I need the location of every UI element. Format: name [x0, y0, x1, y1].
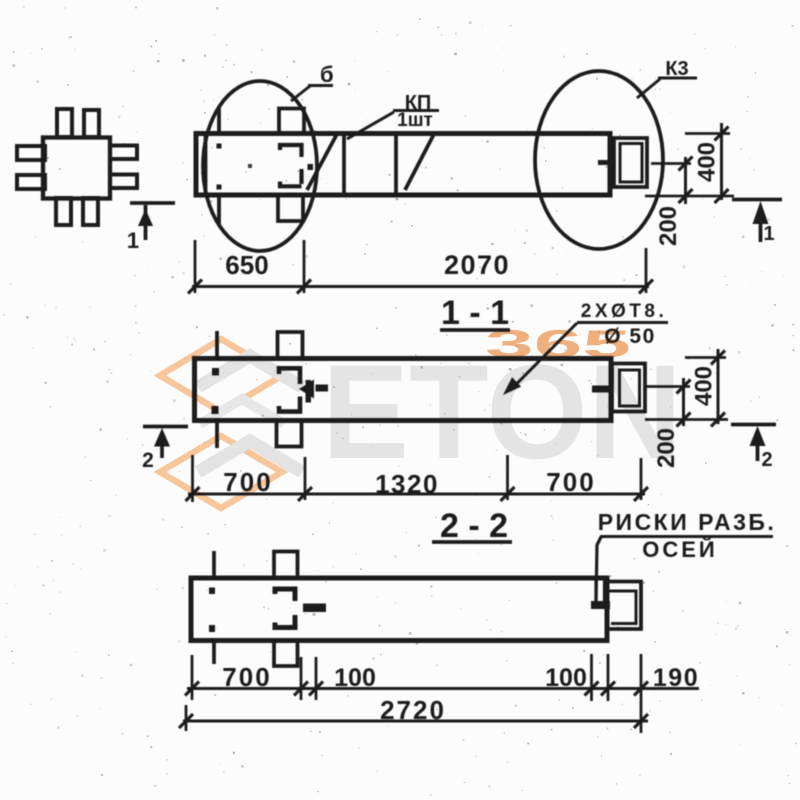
leader to notch — [596, 537, 601, 600]
svg-text:2ХØТ8.: 2ХØТ8. — [581, 301, 667, 322]
chevron gray upper — [198, 356, 302, 387]
label riski underline — [600, 535, 773, 538]
extension mid of 200 — [646, 385, 690, 388]
label KZ leader — [637, 79, 660, 98]
cross right stub lower — [110, 175, 137, 189]
tick at 304 — [297, 280, 311, 294]
section cut line 2 left — [143, 425, 188, 429]
section cut line 2 right — [731, 423, 776, 427]
extension line at 591 — [590, 654, 593, 701]
title underline — [432, 540, 512, 544]
bracket arrow — [299, 380, 314, 399]
tick at 305 — [298, 487, 312, 501]
extension line at 507 — [506, 455, 509, 500]
svg-text:700: 700 — [223, 467, 272, 497]
cross left stub upper — [17, 146, 45, 160]
tick below — [212, 641, 216, 664]
svg-text:1320: 1320 — [375, 469, 439, 499]
notch vertical left — [594, 578, 597, 602]
cross top stub right — [84, 110, 99, 137]
end cap inner line — [204, 134, 208, 196]
label KZ underline — [658, 77, 697, 80]
label b leader — [291, 86, 310, 101]
dimension line 2720 — [183, 720, 648, 723]
beam outline 2-2 — [191, 578, 607, 641]
plate vertical left — [342, 134, 346, 196]
tenon center dash 1-1 — [592, 386, 609, 393]
svg-text:650: 650 — [225, 250, 268, 280]
tick at 192 — [186, 487, 200, 501]
section arrow stem — [144, 205, 148, 240]
svg-text:400: 400 — [691, 366, 718, 406]
anchor dot lower — [212, 406, 219, 414]
bottom tab — [277, 421, 302, 447]
logo diamond lower — [160, 436, 282, 508]
section arrow — [154, 428, 170, 447]
section arrow — [138, 209, 153, 226]
dimension line 400 — [717, 349, 720, 424]
tick at 507 — [501, 487, 515, 501]
tick below beam — [217, 195, 221, 224]
top tab plan — [279, 109, 304, 134]
svg-text:1 - 1: 1 - 1 — [441, 294, 509, 332]
tenon center dash plan — [598, 160, 613, 165]
dimension line 200 — [682, 378, 685, 426]
plate diagonal left — [307, 134, 337, 190]
bracket 2-2 — [275, 589, 295, 628]
extension bottom shared — [645, 195, 734, 198]
tick at 301 — [294, 682, 308, 696]
WATERMARK — [160, 323, 682, 508]
svg-text:1: 1 — [763, 223, 774, 245]
svg-text:РИСКИ РА3Б.: РИСКИ РА3Б. — [598, 509, 777, 535]
svg-text:200: 200 — [655, 206, 682, 246]
center dot — [248, 164, 252, 168]
svg-text:1шт: 1шт — [397, 110, 433, 131]
extension line at 316 — [315, 657, 318, 700]
label b underline — [308, 84, 333, 87]
tick at 195 — [188, 280, 202, 294]
tick at 316 — [309, 682, 323, 696]
title underline — [440, 328, 510, 332]
anchor dot upper — [209, 588, 215, 595]
label KP leader — [347, 112, 394, 139]
svg-text:400: 400 — [694, 142, 721, 182]
tick at 646 — [639, 280, 653, 294]
tick at 608 — [601, 682, 615, 696]
section arrow — [753, 201, 769, 224]
plate diagonal right — [405, 134, 434, 190]
cross square body — [43, 138, 110, 199]
dimension line 650-2070 — [192, 285, 649, 288]
extension line at 641 — [640, 654, 643, 733]
cross right stub upper — [110, 146, 137, 160]
tick above beam — [217, 108, 221, 133]
cross bottom stub left — [56, 198, 71, 225]
label 2xOT8 underline — [577, 321, 668, 324]
detail ellipse right — [535, 71, 663, 249]
svg-text:б: б — [320, 62, 334, 87]
bracket dash — [316, 385, 329, 392]
top tab — [274, 552, 298, 579]
hole leader line — [512, 323, 577, 389]
section arrow stem — [759, 221, 763, 242]
tenon inner 1-1 — [620, 370, 640, 406]
anchor dot upper — [212, 368, 219, 376]
extension top of 400 — [685, 356, 726, 359]
tenon outer 2-2 — [608, 582, 641, 630]
bracket anchor blob plan — [308, 164, 314, 170]
dashed bracket plan — [280, 145, 302, 186]
dimension line 700-1320-700 — [188, 493, 645, 496]
svg-text:190: 190 — [653, 664, 699, 692]
notch vertical right — [603, 578, 606, 602]
dimension line 400 — [720, 123, 723, 200]
section cut line 1 right — [732, 198, 782, 202]
section cut line 1 left — [130, 201, 175, 205]
section arrow stem — [756, 443, 760, 461]
cross left stub lower — [17, 175, 45, 189]
tenon outer 1-1 — [612, 364, 645, 412]
extension line at 608 — [607, 654, 610, 701]
extension line at 192 — [191, 455, 194, 502]
svg-text:200: 200 — [653, 428, 680, 468]
extension line at 192 — [191, 655, 194, 700]
extension line left — [185, 705, 188, 731]
cross bottom stub right — [83, 198, 98, 225]
dimension line 200 — [684, 157, 687, 204]
bracket dash — [303, 604, 326, 613]
label KP underline — [393, 109, 439, 112]
anchor dot lower — [217, 185, 222, 190]
extension line at 641 — [640, 458, 643, 500]
logo diamond upper — [160, 339, 282, 412]
chevron gray mid — [200, 399, 284, 424]
extension line at 305 — [304, 457, 307, 500]
beam outline 1-1 — [195, 359, 612, 421]
anchor dot upper — [217, 144, 222, 149]
tick above — [215, 331, 219, 358]
tick at 192 — [185, 682, 199, 696]
extension line right — [645, 248, 648, 293]
tick at 641 — [634, 682, 648, 696]
bracket 1-1 — [279, 368, 300, 411]
tick at 641 — [634, 714, 648, 728]
svg-text:100: 100 — [334, 664, 376, 692]
extension mid of 200 — [651, 162, 691, 165]
svg-text:700: 700 — [222, 662, 271, 692]
hole leader arrowhead — [503, 377, 521, 395]
tick above — [212, 551, 216, 578]
dimension line 700-100-100-190 — [187, 687, 699, 690]
section arrow — [750, 426, 766, 446]
tenon inner 2-2 — [609, 591, 636, 624]
section arrow stem — [160, 444, 164, 458]
top tab — [278, 332, 303, 359]
tick at 186 — [179, 714, 193, 728]
extension bottom shared — [645, 418, 728, 421]
tick below — [215, 421, 219, 448]
anchor dot lower — [209, 625, 215, 632]
svg-text:ОСЕЙ: ОСЕЙ — [642, 537, 718, 562]
plate vertical right — [394, 134, 398, 196]
bottom tab plan — [278, 195, 303, 221]
extension line at 301 — [300, 657, 303, 700]
svg-text:2: 2 — [761, 449, 772, 471]
svg-text:2720: 2720 — [380, 695, 446, 725]
svg-text:2070: 2070 — [444, 250, 510, 280]
tick at 591 — [585, 682, 599, 696]
extension line left — [194, 240, 197, 293]
extension top of 400 — [685, 132, 730, 135]
detail ellipse left — [203, 81, 317, 251]
notch bar — [591, 601, 610, 609]
svg-text:2 - 2: 2 - 2 — [440, 507, 508, 545]
chevron gray lower — [198, 441, 302, 472]
cross top stub left — [57, 109, 72, 137]
extension line middle — [303, 240, 306, 293]
svg-text:1: 1 — [127, 228, 139, 253]
svg-text:2: 2 — [142, 449, 154, 472]
tenon outer plan — [614, 138, 647, 187]
svg-text:100: 100 — [545, 664, 587, 692]
tick at 641 — [634, 487, 648, 501]
svg-text:Ø 50: Ø 50 — [604, 325, 656, 348]
svg-text:700: 700 — [546, 467, 595, 497]
tenon inner plan — [620, 144, 642, 183]
beam outline plan — [196, 134, 610, 196]
bottom tab — [274, 641, 298, 667]
